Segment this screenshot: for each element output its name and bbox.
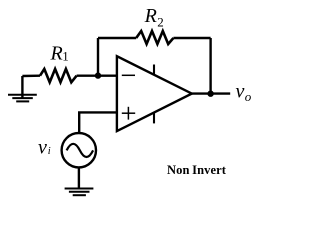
wire output [192,92,230,94]
ground (left, at R1 input) [8,76,37,101]
wire R2 to right corner [173,37,210,39]
source Vi (ac source) [62,133,96,167]
op-amp U1 [117,56,192,131]
svg-text:R: R [50,43,63,65]
resistor R1 [40,69,77,82]
svg-text:2: 2 [157,15,164,30]
power pin down [153,113,155,124]
wire Vi to ground [78,167,80,188]
svg-text:1: 1 [62,49,68,64]
label R2 [144,5,164,30]
power pin up [153,65,155,75]
svg-text:R: R [144,5,157,27]
wire R1 to inverting input [77,74,117,76]
svg-text:Non Invert: Non Invert [167,163,227,177]
plus sign (non-inverting input) [122,112,135,114]
svg-text:v: v [38,137,47,159]
svg-text:v: v [236,81,245,103]
wire node A up to feedback [97,38,99,76]
ground (below Vi) [65,189,94,196]
svg-text:o: o [245,89,252,104]
node A (inverting input junction) [95,72,101,78]
resistor R2 [136,31,173,44]
minus sign (inverting input) [122,74,135,76]
svg-text:i: i [48,146,51,157]
wire ground to R1 [22,74,40,77]
label v_o [236,81,252,105]
node B (output junction) [207,91,213,97]
wire feedback right vertical [209,38,211,94]
wire non-inverting input [79,112,117,133]
label R1 [50,43,69,65]
wire feedback top-left [98,37,136,39]
label v_i [38,137,51,159]
